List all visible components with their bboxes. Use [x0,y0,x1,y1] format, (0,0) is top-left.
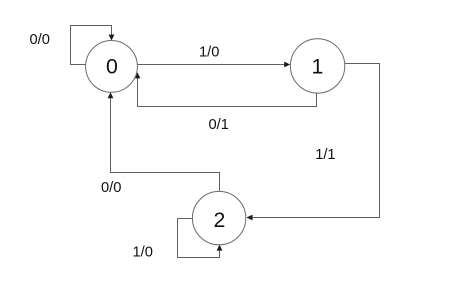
svg-text:0/0: 0/0 [29,32,49,48]
svg-text:1/0: 1/0 [132,245,152,261]
label 1/1 for edge state 1 to state 2 [315,147,335,163]
label 1/0 for edge state 0 to state 1 [199,45,219,61]
label 0/1 for edge state 1 to state 0 [208,117,228,133]
wire edge state 1 to state 2 [247,64,380,221]
state 0 [86,41,138,93]
svg-text:0: 0 [106,55,118,79]
label 1/0 for self-loop on state 2 [132,245,152,261]
svg-text:2: 2 [213,208,225,232]
wire edge state 2 to state 0 [108,92,220,192]
state 1 [290,39,344,93]
state 2 [192,191,245,244]
svg-text:1/1: 1/1 [315,147,335,163]
label 0/0 for self-loop on state 0 [29,32,49,48]
svg-text:1: 1 [311,55,323,79]
wire edge state 1 to state 0 [135,72,317,106]
svg-text:1/0: 1/0 [199,45,219,61]
svg-text:0/0: 0/0 [101,180,121,196]
svg-text:0/1: 0/1 [208,117,228,133]
wire self-loop on state 2 [178,219,223,258]
wire self-loop on state 0 [71,26,115,65]
wire edge state 0 to state 1 [137,62,290,68]
label 0/0 for edge state 2 to state 0 [101,180,121,196]
